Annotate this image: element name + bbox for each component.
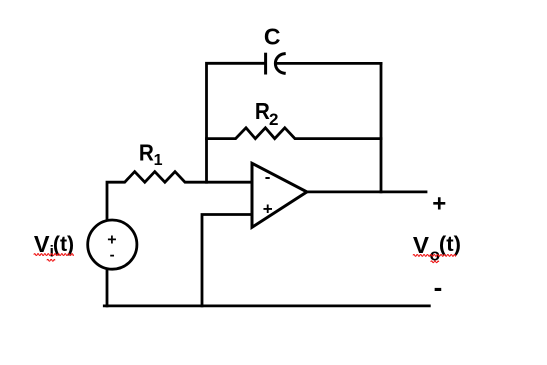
svg-text:2: 2 [269, 110, 278, 129]
svg-text:V: V [413, 232, 429, 257]
svg-text:C: C [264, 24, 281, 50]
svg-text:(t): (t) [439, 231, 461, 256]
svg-text:-: - [110, 246, 115, 263]
svg-text:+: + [432, 190, 446, 217]
svg-text:V: V [34, 231, 50, 257]
svg-text:R: R [139, 140, 154, 166]
svg-text:R: R [255, 98, 270, 124]
svg-text:(t): (t) [53, 232, 74, 256]
svg-text:-: - [434, 272, 443, 302]
svg-text:+: + [263, 200, 273, 219]
svg-text:-: - [265, 168, 271, 187]
svg-text:1: 1 [154, 152, 163, 169]
